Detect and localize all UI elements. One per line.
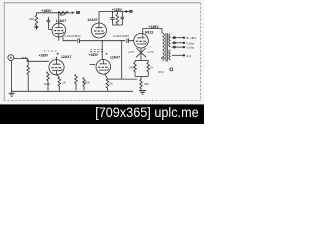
resistor R top-left vertical	[34, 13, 38, 30]
wire tap B+	[172, 37, 184, 39]
svg-text:6.3Vac: 6.3Vac	[186, 41, 195, 45]
svg-text:10K: 10K	[59, 13, 64, 17]
svg-text:+185V: +185V	[89, 53, 99, 57]
capacitor 0.22u second	[127, 38, 134, 43]
svg-text:1meg: 1meg	[21, 57, 28, 60]
input jack J1	[8, 55, 14, 61]
svg-text:1K: 1K	[109, 81, 113, 85]
svg-text:100K: 100K	[29, 18, 35, 21]
resistor x76	[75, 75, 78, 91]
wire cathode V1	[58, 33, 60, 40]
ground symbol right	[139, 91, 146, 95]
svg-text:300: 300	[144, 82, 149, 86]
wire return to bus	[108, 78, 138, 80]
wire plate U3 to transformer	[143, 29, 162, 34]
transformer T1 primary winding	[163, 33, 165, 60]
wire plate V2	[98, 11, 100, 23]
svg-text:100K: 100K	[83, 81, 90, 85]
wire grid drop to V3	[101, 41, 103, 60]
wire jack ground drop	[11, 60, 13, 91]
node open circle below transformer	[170, 68, 173, 71]
wire B+ rail mid	[99, 10, 131, 12]
resistor 1M input	[27, 59, 30, 91]
wire grid lead V3	[90, 64, 96, 66]
capacitor 0.22u first	[78, 38, 126, 43]
triode V3 12AX7 lower right	[96, 60, 111, 75]
wire plate V1	[58, 13, 60, 23]
caption bar	[0, 104, 204, 124]
capacitor top-left small	[47, 17, 53, 30]
svg-text:12AX7: 12AX7	[110, 56, 120, 60]
resistor output lower	[140, 77, 143, 91]
transformer T1 core	[166, 33, 167, 62]
svg-text:+185V: +185V	[112, 8, 123, 12]
svg-text:B+ 185V: B+ 185V	[186, 36, 196, 40]
svg-text:6X4: 6X4	[158, 70, 164, 74]
svg-text:0.22uF/400V: 0.22uF/400V	[65, 34, 81, 38]
paper background	[0, 0, 204, 124]
node dot transformer bottom	[161, 57, 163, 59]
node tick after V4 label	[57, 53, 59, 54]
wire heater cross below U3	[136, 48, 146, 61]
wire joining RC	[113, 24, 123, 26]
triode U3 6DJ8	[134, 33, 149, 48]
svg-text:Gnd: Gnd	[186, 54, 191, 58]
resistor divider x48	[47, 72, 50, 91]
wire coupling line	[63, 37, 77, 41]
node tick after V3 label	[106, 53, 108, 55]
svg-text:12AX7: 12AX7	[61, 55, 71, 59]
wire tap ground	[172, 54, 184, 56]
resistor cathode V3	[105, 74, 109, 92]
svg-text:6922: 6922	[145, 30, 153, 34]
svg-text:100K: 100K	[129, 66, 135, 70]
wire tap 6.3V a	[172, 42, 184, 44]
svg-text:1K: 1K	[150, 66, 153, 70]
resistor pair box right	[147, 60, 150, 76]
wire tap 6.3V b	[172, 46, 184, 48]
capacitor snubber x122	[121, 11, 124, 25]
triode V2 12AX7	[92, 23, 107, 38]
svg-text:+185V: +185V	[41, 9, 52, 13]
svg-text:+17V: +17V	[128, 50, 135, 54]
wire input to grid	[14, 59, 49, 62]
svg-text:100K: 100K	[44, 82, 51, 86]
svg-text:[709x365] uplc.me: [709x365] uplc.me	[95, 104, 199, 120]
schematic border frame	[4, 3, 200, 101]
svg-text:6.3Vac: 6.3Vac	[186, 46, 195, 50]
resistor 10K on rail	[58, 11, 68, 14]
svg-text:12AX7: 12AX7	[87, 18, 97, 22]
triode V1 12AX7	[52, 23, 66, 37]
wire box bottom	[135, 76, 148, 78]
svg-text:12AX7: 12AX7	[56, 19, 66, 23]
resistor pair box left	[134, 60, 137, 76]
resistor cathode V4	[57, 71, 61, 92]
svg-text:+17V: +17V	[147, 50, 154, 54]
svg-text:+185V: +185V	[39, 53, 49, 57]
triode V4 12AX7	[49, 60, 64, 75]
node B+ arrow left	[72, 11, 75, 14]
svg-text:1K: 1K	[62, 81, 66, 85]
svg-text:+185V: +185V	[149, 25, 160, 29]
wire ground bus	[11, 90, 133, 92]
resistor x84	[83, 78, 86, 91]
ground symbol left	[9, 91, 15, 96]
resistor decoupling R	[116, 11, 119, 25]
node B+ arrow mid	[125, 10, 128, 13]
wire B+ rail left	[36, 12, 70, 14]
wire output drop x122	[121, 41, 123, 79]
capacitor decoupling C	[110, 11, 114, 25]
wire box top	[135, 59, 148, 61]
transformer T1 secondary winding	[169, 34, 171, 47]
node square pads right	[183, 37, 185, 57]
wire dashes above V4 label	[44, 50, 57, 52]
svg-text:0.22uF/400V: 0.22uF/400V	[113, 34, 129, 38]
wire dashes above V3 label	[90, 50, 103, 52]
